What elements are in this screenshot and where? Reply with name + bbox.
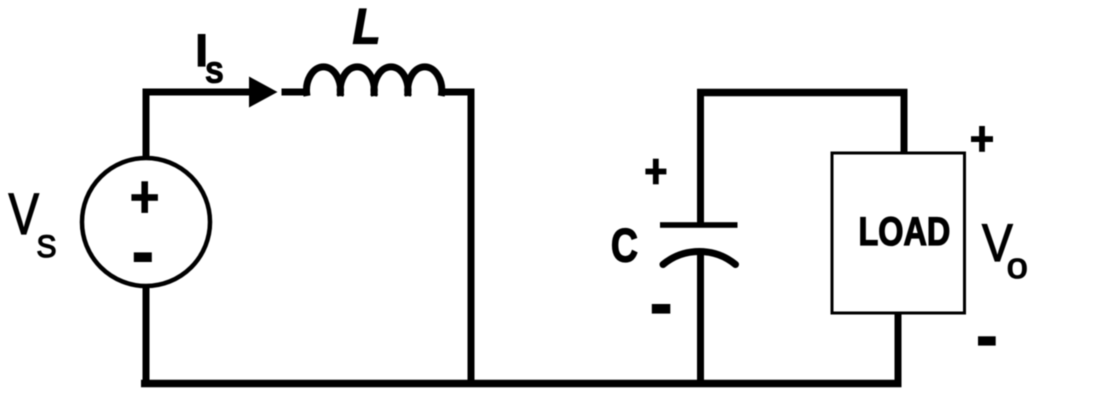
wire: inductor to top-right corner of left loop <box>439 89 475 96</box>
svg-text:o: o <box>1007 246 1028 286</box>
label LOAD <box>859 209 951 254</box>
voltage source VS circle <box>82 158 210 286</box>
label Is <box>195 25 223 89</box>
wire: top-right rail <box>697 89 908 97</box>
label L <box>353 0 381 55</box>
label Vs <box>9 183 57 264</box>
svg-text:V: V <box>9 183 40 247</box>
svg-text:L: L <box>353 0 381 55</box>
svg-text:S: S <box>206 56 224 88</box>
wire: capacitor branch lower <box>697 251 704 384</box>
wire: arrow tip to inductor <box>282 89 309 96</box>
label Vo <box>982 213 1028 286</box>
wire: bottom of source down to bottom rail <box>143 284 150 384</box>
svg-text:C: C <box>611 220 638 273</box>
wire: load branch upper <box>901 89 908 155</box>
minus sign inside source <box>134 252 152 262</box>
label C <box>611 220 638 273</box>
svg-text:S: S <box>37 228 57 264</box>
wire: top of source to top-left corner <box>143 89 150 161</box>
capacitor C bottom plate (curved) <box>663 251 736 264</box>
plus sign above capacitor <box>645 159 666 185</box>
wire: top rail left segment <box>143 89 250 96</box>
inductor L (4 loops) <box>306 67 441 96</box>
wire: bottom rail <box>141 380 902 388</box>
wire: load branch lower <box>895 312 902 384</box>
plus sign output <box>971 126 993 152</box>
minus sign below capacitor <box>652 304 671 314</box>
LOAD box <box>832 153 965 313</box>
minus sign output <box>978 336 996 345</box>
svg-text:LOAD: LOAD <box>859 209 951 254</box>
arrow for current Is <box>249 77 278 108</box>
capacitor C top plate <box>660 222 738 228</box>
wire: capacitor branch upper <box>697 89 704 224</box>
plus sign inside source <box>131 181 158 213</box>
wire: middle vertical drop <box>468 89 475 385</box>
